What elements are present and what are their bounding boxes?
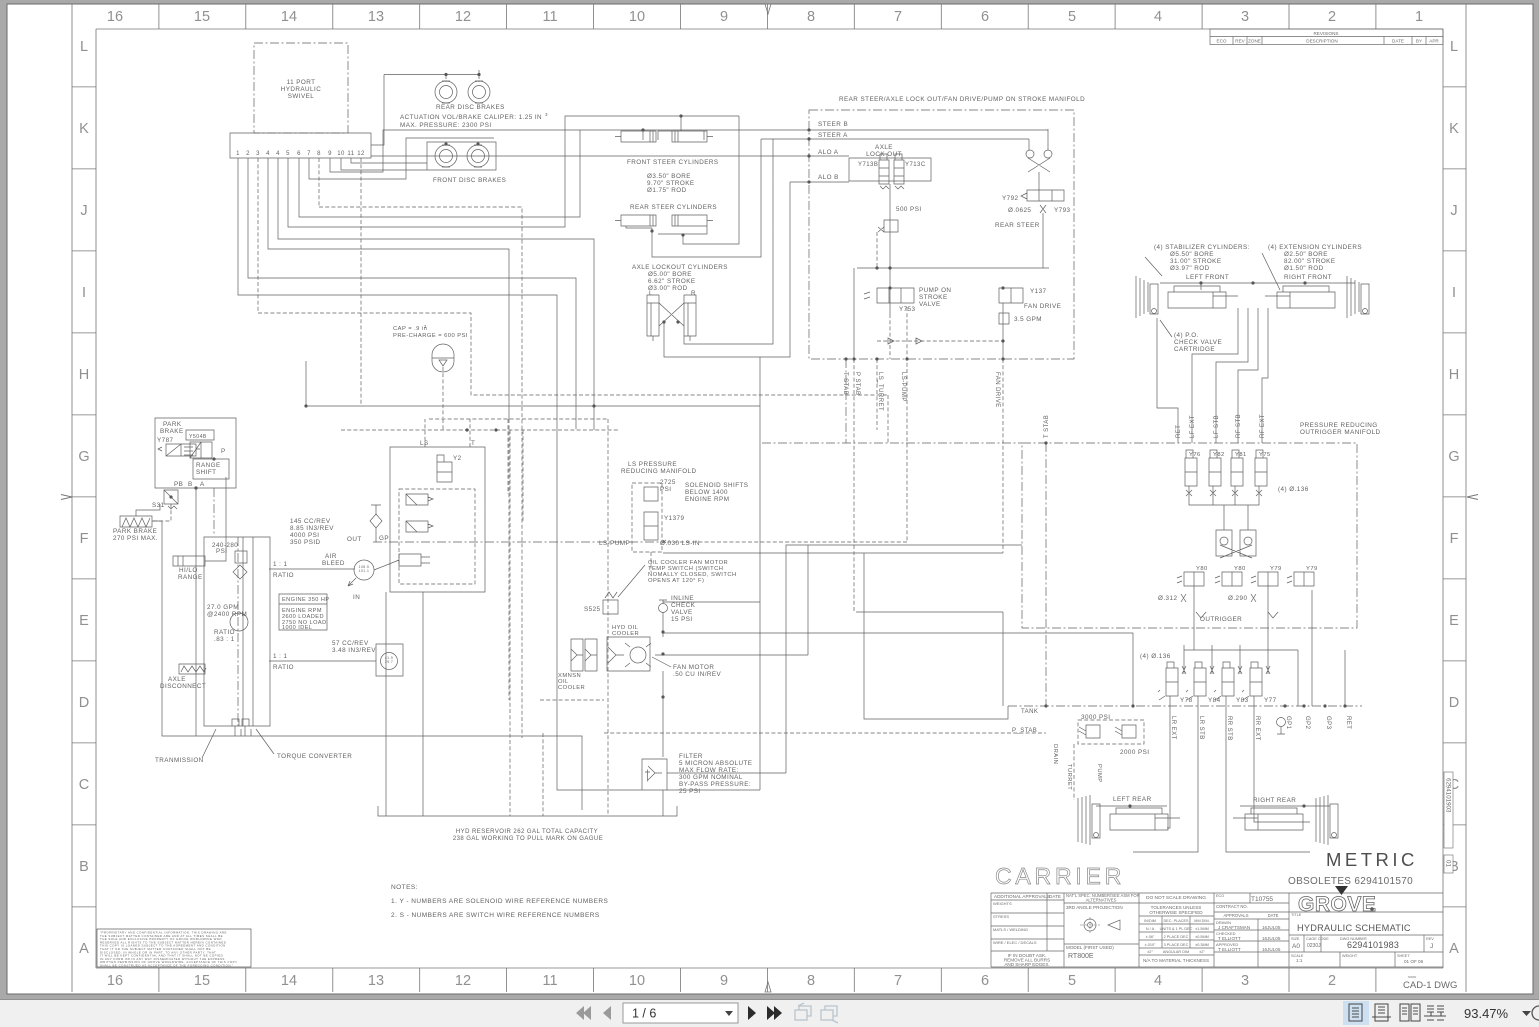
svg-text:H: H — [79, 367, 89, 383]
svg-text:K: K — [79, 121, 89, 137]
svg-text:25 PSI: 25 PSI — [679, 788, 701, 795]
svg-text:350 PSID: 350 PSID — [290, 539, 321, 546]
svg-text:D: D — [1449, 695, 1459, 711]
svg-text:Y753: Y753 — [899, 306, 916, 313]
svg-text:OUT: OUT — [347, 536, 362, 543]
svg-text:Ø.0625: Ø.0625 — [1008, 207, 1031, 214]
svg-text:GP2: GP2 — [1304, 716, 1310, 730]
svg-text:Y792: Y792 — [1002, 195, 1019, 202]
svg-text:(4) Ø.136: (4) Ø.136 — [1140, 653, 1171, 660]
svg-text:5 MICRON ABSOLUTE: 5 MICRON ABSOLUTE — [679, 760, 752, 767]
svg-text:ENGINE RPM: ENGINE RPM — [685, 496, 729, 503]
svg-text:VALVE: VALVE — [671, 609, 693, 616]
svg-text:2: 2 — [1328, 973, 1336, 989]
svg-text:SHIFT: SHIFT — [196, 469, 216, 476]
svg-text:DISCONNECT: DISCONNECT — [160, 683, 206, 690]
svg-text:8: 8 — [317, 151, 321, 157]
svg-text:7: 7 — [894, 973, 902, 989]
svg-text:APPROVALS: APPROVALS — [1223, 913, 1248, 918]
svg-text:6294101903: 6294101903 — [1445, 778, 1452, 813]
svg-text:J: J — [1430, 943, 1433, 950]
svg-text:Y77: Y77 — [1264, 697, 1277, 704]
svg-text:5: 5 — [1068, 9, 1076, 25]
svg-text:13: 13 — [368, 9, 384, 25]
svg-text:RF EXT: RF EXT — [1260, 414, 1266, 438]
svg-text:T ELLIOTT: T ELLIOTT — [1218, 936, 1241, 941]
svg-text:2. S - NUMBERS ARE SWITCH WIR: 2. S - NUMBERS ARE SWITCH WIRE REFERENCE… — [391, 912, 600, 919]
svg-text:CAD-1 DWG: CAD-1 DWG — [1403, 980, 1457, 991]
svg-text:1 : 1: 1 : 1 — [273, 653, 288, 660]
svg-text:HYD RESERVOIR 262 GAL TOTAL CA: HYD RESERVOIR 262 GAL TOTAL CAPACITY — [456, 829, 598, 835]
svg-text:ANGULAR DIM: ANGULAR DIM — [1163, 950, 1189, 954]
svg-text:REDUCING MANIFOLD: REDUCING MANIFOLD — [621, 468, 697, 475]
svg-text:BLEED: BLEED — [322, 560, 345, 567]
svg-text:D: D — [79, 695, 89, 711]
svg-text:L: L — [649, 290, 653, 297]
svg-text:N/A TO MATERIAL THICKNESS: N/A TO MATERIAL THICKNESS — [1143, 958, 1209, 963]
svg-text:PSI: PSI — [216, 548, 228, 555]
svg-text:LEFT REAR: LEFT REAR — [1113, 796, 1152, 803]
svg-text:CAP = .9 in: CAP = .9 in — [393, 326, 427, 332]
svg-text:J CRAFTSMAN: J CRAFTSMAN — [1218, 925, 1250, 930]
svg-text:A: A — [1449, 941, 1459, 957]
svg-text:HI/LO: HI/LO — [179, 567, 198, 574]
svg-text:12: 12 — [357, 151, 365, 157]
svg-text:REAR STEER/AXLE LOCK OUT/FAN D: REAR STEER/AXLE LOCK OUT/FAN DRIVE/PUMP … — [839, 96, 1085, 103]
svg-text:A: A — [79, 941, 89, 957]
svg-text:DO NOT SCALE DRAWING: DO NOT SCALE DRAWING — [1146, 895, 1206, 901]
svg-text:HYDRAULIC: HYDRAULIC — [281, 86, 321, 93]
svg-text:B: B — [188, 481, 193, 488]
svg-text:±2°: ±2° — [1147, 950, 1153, 954]
svg-text:4000 PSI: 4000 PSI — [290, 532, 320, 539]
svg-text:39.7: 39.7 — [385, 660, 393, 664]
svg-text:PB: PB — [174, 481, 183, 488]
svg-text:P_STAB: P_STAB — [1012, 728, 1037, 734]
svg-text:300 GPM NOMINAL: 300 GPM NOMINAL — [679, 774, 743, 781]
svg-text:DATE: DATE — [1268, 913, 1279, 918]
svg-text:PUMP ON: PUMP ON — [919, 287, 951, 294]
svg-text:2: 2 — [246, 151, 250, 157]
svg-text:Ø3.00" ROD: Ø3.00" ROD — [648, 285, 688, 292]
svg-text:OTHERWISE SPECIFIED: OTHERWISE SPECIFIED — [1149, 910, 1203, 915]
svg-text:RIGHT FRONT: RIGHT FRONT — [1284, 274, 1332, 281]
svg-text:31.00" STROKE: 31.00" STROKE — [1170, 258, 1221, 265]
svg-text:MM DIM.: MM DIM. — [1194, 919, 1209, 923]
svg-text:MAX. PRESSURE: 2300 PSI: MAX. PRESSURE: 2300 PSI — [400, 122, 492, 129]
svg-text:6294101983: 6294101983 — [1347, 940, 1399, 950]
svg-text:Y83: Y83 — [1236, 697, 1249, 704]
svg-text:J: J — [1450, 203, 1457, 219]
svg-text:4: 4 — [1154, 973, 1162, 989]
svg-text:Y713B: Y713B — [858, 162, 878, 168]
svg-text:N / A: N / A — [1146, 927, 1155, 931]
svg-text:.50 CU IN/REV: .50 CU IN/REV — [673, 671, 722, 678]
svg-text:01: 01 — [1445, 860, 1452, 867]
svg-text:10: 10 — [337, 151, 345, 157]
svg-text:270 PSI MAX.: 270 PSI MAX. — [113, 535, 158, 542]
svg-text:ENGINE 350 HP: ENGINE 350 HP — [282, 597, 330, 603]
svg-text:238 GAL WORKING TO PULL MARK O: 238 GAL WORKING TO PULL MARK ON GAGUE — [453, 836, 603, 842]
svg-text:2725: 2725 — [660, 479, 676, 486]
svg-text:16: 16 — [107, 9, 123, 25]
svg-text:F: F — [1450, 531, 1459, 547]
svg-text:OPENS AT 120° F): OPENS AT 120° F) — [648, 578, 704, 584]
svg-text:11: 11 — [542, 973, 557, 989]
svg-text:Ø3.97" ROD: Ø3.97" ROD — [1170, 265, 1210, 272]
svg-text:B: B — [79, 859, 89, 875]
svg-text:6: 6 — [981, 9, 989, 25]
svg-text:Y80: Y80 — [1196, 566, 1208, 572]
svg-text:3: 3 — [256, 151, 260, 157]
svg-text:F: F — [80, 531, 89, 547]
svg-text:Y787: Y787 — [157, 437, 174, 444]
svg-text:RIGHT REAR: RIGHT REAR — [1253, 797, 1296, 804]
svg-text:11: 11 — [542, 9, 557, 25]
svg-text:Y137: Y137 — [1030, 288, 1047, 295]
svg-text:2: 2 — [1328, 9, 1336, 25]
svg-text:DATE: DATE — [1392, 39, 1404, 44]
svg-text:REV: REV — [1235, 39, 1245, 44]
svg-text:COOLER: COOLER — [558, 685, 585, 691]
svg-text:GP3: GP3 — [1325, 716, 1331, 730]
svg-text:Ø1.75" ROD: Ø1.75" ROD — [647, 187, 687, 194]
svg-text:3 PLACE DEC: 3 PLACE DEC — [1164, 943, 1189, 947]
svg-text:APR: APR — [1429, 39, 1439, 44]
svg-text:OUTRIGGER: OUTRIGGER — [1200, 616, 1242, 623]
svg-text:LOCK OUT: LOCK OUT — [866, 151, 902, 158]
svg-text:FAN MOTOR: FAN MOTOR — [673, 664, 714, 671]
svg-text:E: E — [79, 613, 89, 629]
svg-text:3: 3 — [424, 324, 427, 329]
svg-text:C: C — [79, 777, 89, 793]
svg-text:ECO: ECO — [1217, 39, 1227, 44]
svg-text:STRESS: STRESS — [993, 914, 1009, 919]
svg-text:CARTRIDGE: CARTRIDGE — [1174, 346, 1215, 353]
svg-text:10: 10 — [629, 973, 645, 989]
svg-text:9: 9 — [720, 973, 728, 989]
svg-text:.83 : 1: .83 : 1 — [214, 636, 235, 643]
svg-text:15: 15 — [194, 973, 210, 989]
svg-text:Y82: Y82 — [1213, 452, 1225, 458]
svg-text:BELOW 1400: BELOW 1400 — [685, 489, 728, 496]
svg-text:9: 9 — [720, 9, 728, 25]
svg-text:LS-PUMP: LS-PUMP — [599, 540, 630, 547]
svg-text:LEFT FRONT: LEFT FRONT — [1186, 274, 1229, 281]
svg-text:DESCRIPTION: DESCRIPTION — [1306, 39, 1337, 44]
svg-text:MATLS / WELDING: MATLS / WELDING — [993, 927, 1028, 932]
svg-text:3000 PSI: 3000 PSI — [1081, 714, 1111, 721]
svg-text:T STAB: T STAB — [1044, 415, 1050, 438]
svg-text:ZONE: ZONE — [1248, 39, 1261, 44]
svg-text:3RD ANGLE PROJECTION: 3RD ANGLE PROJECTION — [1066, 905, 1123, 910]
svg-text:±1.5MM: ±1.5MM — [1195, 927, 1209, 931]
svg-text:RANGE: RANGE — [178, 574, 203, 581]
svg-text:11 PORT: 11 PORT — [287, 79, 316, 86]
svg-text:STEER B: STEER B — [818, 121, 848, 128]
svg-text:HYDRAULIC SCHEMATIC: HYDRAULIC SCHEMATIC — [1297, 923, 1411, 933]
svg-text:RF STB: RF STB — [1236, 414, 1242, 438]
svg-text:±.010": ±.010" — [1145, 943, 1156, 947]
svg-text:Ø.030 LS-IN: Ø.030 LS-IN — [660, 540, 700, 547]
svg-text:E: E — [1449, 613, 1459, 629]
svg-text:1. Y - NUMBERS ARE SOLENOID W: 1. Y - NUMBERS ARE SOLENOID WIRE REFEREN… — [391, 898, 609, 905]
svg-text:4: 4 — [266, 151, 270, 157]
svg-text:L: L — [1450, 39, 1458, 55]
svg-text:P: P — [221, 448, 226, 455]
svg-text:FILTER: FILTER — [679, 753, 703, 760]
svg-text:RATIO: RATIO — [214, 629, 235, 636]
svg-text:3: 3 — [545, 112, 548, 117]
svg-text:GP1: GP1 — [1285, 716, 1291, 730]
svg-text:12: 12 — [455, 9, 471, 25]
svg-text:93.47%: 93.47% — [1464, 1006, 1509, 1021]
svg-text:1 / 6: 1 / 6 — [632, 1007, 656, 1021]
svg-text:2 PLACE DEC: 2 PLACE DEC — [1164, 935, 1189, 939]
svg-text:I: I — [1452, 285, 1456, 301]
svg-text:J: J — [80, 203, 87, 219]
svg-text:OUTRIGGER MANIFOLD: OUTRIGGER MANIFOLD — [1300, 429, 1381, 436]
svg-text:RR EXT: RR EXT — [1254, 716, 1260, 741]
svg-text:ALO B: ALO B — [818, 174, 839, 181]
svg-text:PARK: PARK — [163, 421, 182, 428]
svg-text:14: 14 — [281, 973, 297, 989]
svg-text:A0: A0 — [1292, 943, 1300, 950]
svg-text:15 PSI: 15 PSI — [671, 616, 693, 623]
svg-text:Ø.290: Ø.290 — [1228, 595, 1247, 602]
svg-text:FAN DRIVE: FAN DRIVE — [1024, 303, 1061, 310]
svg-text:CHECK: CHECK — [671, 602, 696, 609]
svg-text:FRONT DISC BRAKES: FRONT DISC BRAKES — [433, 177, 506, 184]
svg-text:3: 3 — [1241, 973, 1249, 989]
svg-text:9: 9 — [328, 151, 332, 157]
svg-text:1 : 1: 1 : 1 — [273, 561, 288, 568]
svg-text:PRESSURE REDUCING: PRESSURE REDUCING — [1300, 422, 1378, 429]
svg-text:Y84: Y84 — [1208, 697, 1221, 704]
svg-text:1: 1 — [236, 151, 240, 157]
svg-text:DATE: DATE — [1049, 894, 1061, 899]
svg-text:K: K — [1449, 121, 1459, 137]
svg-text:AXLE: AXLE — [875, 144, 893, 151]
svg-text:COOLER: COOLER — [612, 631, 639, 637]
svg-text:PUMP: PUMP — [1096, 764, 1102, 783]
svg-text:7: 7 — [894, 9, 902, 25]
svg-text:3.5 GPM: 3.5 GPM — [1014, 316, 1042, 323]
svg-text:(4) Ø.136: (4) Ø.136 — [1278, 486, 1309, 493]
svg-text:14: 14 — [281, 9, 297, 25]
svg-text:AND SHARP EDGES.: AND SHARP EDGES. — [1004, 962, 1049, 967]
svg-text:Y75: Y75 — [1259, 452, 1271, 458]
svg-text:8.85 IN3/REV: 8.85 IN3/REV — [290, 525, 334, 532]
svg-text:LF STB: LF STB — [1214, 415, 1220, 438]
svg-text:LR STB: LR STB — [1198, 716, 1204, 740]
svg-text:CAGE CODE: CAGE CODE — [1306, 937, 1329, 941]
svg-text:±2°: ±2° — [1199, 950, 1205, 954]
svg-text:4: 4 — [276, 151, 280, 157]
svg-text:LF EXT: LF EXT — [1190, 415, 1196, 438]
svg-text:SHALL BE CONSTRUED AS ACCEPTAN: SHALL BE CONSTRUED AS ACCEPTANCE OF THE … — [100, 964, 234, 968]
svg-text:T ELLIOTT: T ELLIOTT — [1218, 947, 1241, 952]
svg-text:P STAB: P STAB — [854, 372, 860, 396]
svg-text:I: I — [82, 285, 86, 301]
svg-text:REV: REV — [1426, 937, 1434, 941]
svg-text:1: 1 — [1415, 9, 1423, 25]
svg-text:Y80: Y80 — [1234, 566, 1246, 572]
svg-text:TANK: TANK — [1021, 709, 1038, 715]
svg-text:12: 12 — [455, 973, 471, 989]
svg-text:PSI: PSI — [660, 486, 672, 493]
svg-text:RATIO: RATIO — [273, 572, 294, 579]
svg-text:Ø3.50" BORE: Ø3.50" BORE — [647, 173, 691, 180]
svg-text:RR STB: RR STB — [1226, 716, 1232, 741]
svg-text:TRANMISSION: TRANMISSION — [155, 757, 204, 764]
svg-text:5: 5 — [286, 151, 290, 157]
svg-text:57 CC/REV: 57 CC/REV — [332, 640, 369, 647]
svg-text:L: L — [80, 39, 88, 55]
svg-text:6: 6 — [297, 151, 301, 157]
svg-text:NOTES:: NOTES: — [391, 884, 418, 891]
svg-text:9.70" STROKE: 9.70" STROKE — [647, 180, 695, 187]
svg-text:10: 10 — [629, 9, 645, 25]
svg-text:WEIGHTS: WEIGHTS — [993, 901, 1012, 906]
svg-text:FAN DRIVE: FAN DRIVE — [994, 372, 1000, 408]
svg-text:5: 5 — [1068, 973, 1076, 989]
svg-text:4: 4 — [1154, 9, 1162, 25]
svg-text:BY: BY — [1416, 39, 1422, 44]
svg-text:SIZE: SIZE — [1291, 937, 1300, 941]
svg-text:REAR STEER: REAR STEER — [995, 222, 1040, 229]
svg-text:RET: RET — [1345, 716, 1351, 729]
svg-text:LS PRESSURE: LS PRESSURE — [628, 461, 677, 468]
svg-text:Ø5.00" BORE: Ø5.00" BORE — [648, 271, 692, 278]
svg-text:(4) EXTENSION CYLINDERS: (4) EXTENSION CYLINDERS — [1268, 244, 1362, 251]
svg-text:Y81: Y81 — [1235, 452, 1247, 458]
svg-text:UNITS & 1 PL DEC: UNITS & 1 PL DEC — [1160, 927, 1193, 931]
svg-text:REVISIONS: REVISIONS — [1313, 31, 1338, 36]
svg-text:S31: S31 — [152, 502, 165, 509]
svg-text:IN: IN — [353, 594, 360, 601]
svg-text:AIR: AIR — [325, 553, 337, 560]
svg-text:PARK BRAKE: PARK BRAKE — [113, 528, 157, 535]
svg-text:T10755: T10755 — [1251, 896, 1273, 903]
svg-text:RET: RET — [1176, 425, 1182, 438]
svg-text:H: H — [1449, 367, 1459, 383]
svg-text:3.48 IN3/REV: 3.48 IN3/REV — [332, 647, 376, 654]
svg-text:1000 IDEL: 1000 IDEL — [282, 625, 312, 631]
svg-text:INLINE: INLINE — [671, 595, 694, 602]
svg-text:LR EXT: LR EXT — [1170, 716, 1176, 740]
svg-text:Y1379: Y1379 — [664, 515, 685, 522]
svg-text:DEC. PLACES: DEC. PLACES — [1163, 919, 1189, 923]
svg-text:1:1: 1:1 — [1296, 958, 1303, 963]
svg-text:WEIGHT: WEIGHT — [1342, 954, 1358, 958]
svg-text:3: 3 — [1241, 9, 1249, 25]
svg-text:8: 8 — [807, 9, 815, 25]
svg-text:RANGE: RANGE — [196, 462, 221, 469]
svg-text:13: 13 — [368, 973, 384, 989]
svg-text:Y76: Y76 — [1189, 452, 1201, 458]
svg-text:6.62" STROKE: 6.62" STROKE — [648, 278, 696, 285]
svg-text:IN/DIM: IN/DIM — [1144, 919, 1156, 923]
svg-text:@2400 RPM: @2400 RPM — [207, 611, 247, 618]
svg-text:Y2: Y2 — [453, 455, 462, 462]
svg-text:±0.3MM: ±0.3MM — [1195, 943, 1209, 947]
svg-text:ACTUATION VOL/BRAKE CALIPER: 1: ACTUATION VOL/BRAKE CALIPER: 1.25 IN — [400, 114, 542, 121]
svg-text:STEER A: STEER A — [818, 132, 848, 139]
svg-text:CARRIER: CARRIER — [995, 863, 1125, 889]
svg-text:REAR DISC BRAKES: REAR DISC BRAKES — [436, 104, 505, 111]
svg-text:15: 15 — [194, 9, 210, 25]
svg-text:±0.5MM: ±0.5MM — [1195, 935, 1209, 939]
svg-text:BRAKE: BRAKE — [160, 428, 184, 435]
svg-text:CONTRACT NO.: CONTRACT NO. — [1216, 904, 1248, 909]
svg-text:Ø2.50" BORE: Ø2.50" BORE — [1284, 251, 1328, 258]
svg-text:GP: GP — [379, 535, 389, 542]
svg-text:145 CC/REV: 145 CC/REV — [290, 518, 331, 525]
svg-text:Y713C: Y713C — [905, 162, 926, 168]
svg-text:RATIO: RATIO — [273, 664, 294, 671]
svg-text:SHEET: SHEET — [1397, 954, 1410, 958]
svg-text:16JUL05: 16JUL05 — [1262, 936, 1281, 941]
svg-text:Ø1.50" ROD: Ø1.50" ROD — [1284, 265, 1324, 272]
svg-text:SOLENOID SHIFTS: SOLENOID SHIFTS — [685, 482, 748, 489]
svg-text:500 PSI: 500 PSI — [896, 206, 922, 213]
svg-text:(4) P.O.: (4) P.O. — [1174, 332, 1199, 339]
svg-text:LS: LS — [420, 440, 429, 447]
svg-text:R: R — [691, 290, 696, 297]
svg-text:S525: S525 — [584, 606, 601, 613]
svg-text:T STAB: T STAB — [842, 372, 848, 395]
svg-text:GROVE: GROVE — [1298, 893, 1376, 916]
svg-text:6: 6 — [981, 973, 989, 989]
svg-text:8: 8 — [807, 973, 815, 989]
svg-text:11: 11 — [347, 151, 354, 157]
svg-text:PRE-CHARGE = 600 PSI: PRE-CHARGE = 600 PSI — [393, 333, 468, 339]
svg-text:82.00" STROKE: 82.00" STROKE — [1284, 258, 1335, 265]
svg-text:±.06": ±.06" — [1146, 935, 1155, 939]
svg-text:A: A — [200, 481, 205, 488]
svg-text:METRIC: METRIC — [1326, 849, 1418, 870]
svg-text:0230J: 0230J — [1307, 943, 1321, 949]
svg-text:SWIVEL: SWIVEL — [288, 93, 315, 100]
svg-text:WIRE / ELEC / DECALS: WIRE / ELEC / DECALS — [993, 940, 1037, 945]
svg-text:VALVE: VALVE — [919, 301, 941, 308]
svg-text:16JUL05: 16JUL05 — [1262, 947, 1281, 952]
svg-text:ECO: ECO — [1216, 894, 1224, 898]
svg-text:BY-PASS PRESSURE:: BY-PASS PRESSURE: — [679, 781, 751, 788]
svg-text:Ø5.50" BORE: Ø5.50" BORE — [1170, 251, 1214, 258]
svg-text:FRONT STEER CYLINDERS: FRONT STEER CYLINDERS — [627, 159, 719, 166]
svg-text:101.1: 101.1 — [359, 569, 370, 573]
svg-text:G: G — [78, 449, 89, 465]
svg-text:01 OF 06: 01 OF 06 — [1404, 959, 1424, 964]
svg-text:Y79: Y79 — [1270, 566, 1282, 572]
svg-text:Y793: Y793 — [1054, 207, 1071, 214]
svg-text:ALTERNATIVES: ALTERNATIVES — [1086, 898, 1117, 903]
svg-text:AXLE: AXLE — [168, 676, 186, 683]
svg-text:TURRET: TURRET — [1066, 764, 1072, 790]
svg-text:27.0 GPM: 27.0 GPM — [207, 604, 239, 611]
svg-text:MAX FLOW RATE:: MAX FLOW RATE: — [679, 767, 739, 774]
svg-text:RT800E: RT800E — [1068, 953, 1094, 960]
svg-text:16JUL05: 16JUL05 — [1262, 925, 1281, 930]
svg-text:CHECK VALVE: CHECK VALVE — [1174, 339, 1222, 346]
svg-text:16: 16 — [107, 973, 123, 989]
svg-text:MODEL (FIRST USED): MODEL (FIRST USED) — [1066, 945, 1114, 950]
svg-text:REAR STEER CYLINDERS: REAR STEER CYLINDERS — [630, 204, 717, 211]
svg-text:LS-PUMP: LS-PUMP — [900, 372, 906, 402]
svg-text:Y79: Y79 — [1306, 566, 1318, 572]
